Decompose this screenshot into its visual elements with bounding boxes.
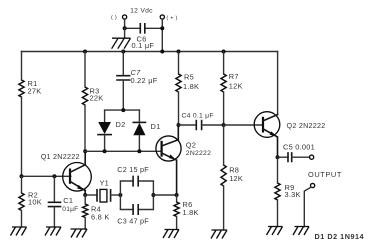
diode D1 xyxy=(133,110,145,151)
crystal Y1 xyxy=(97,189,111,202)
resistor R4 xyxy=(83,195,88,229)
svg-text:Q2: Q2 xyxy=(186,141,196,150)
wire rail to R7 xyxy=(223,52,225,75)
capacitor C2 top branch xyxy=(120,176,153,195)
terminal negative input xyxy=(123,15,127,19)
resistor R7 xyxy=(221,74,226,92)
svg-text:Q1 2N2222: Q1 2N2222 xyxy=(41,152,80,161)
svg-text:R5: R5 xyxy=(184,73,194,82)
capacitor C5 xyxy=(278,153,310,162)
node C6 right xyxy=(160,26,164,30)
svg-text:6.8 K: 6.8 K xyxy=(91,213,110,222)
node rail C7 xyxy=(121,50,125,54)
node rail R5 xyxy=(177,50,181,54)
wire rail to R5 xyxy=(178,52,180,75)
svg-text:10K: 10K xyxy=(28,198,42,207)
svg-text:C5 0.001: C5 0.001 xyxy=(283,143,315,152)
svg-text:C3 47 pF: C3 47 pF xyxy=(117,217,149,226)
ground under R6 xyxy=(163,230,179,239)
svg-text:1.8K: 1.8K xyxy=(183,208,199,217)
wire R3 to base line node xyxy=(84,105,86,151)
node R1 R2 Q1 base xyxy=(20,174,24,178)
ground near C6 xyxy=(112,38,131,49)
node C4 R7 R8 Q3 base xyxy=(222,123,226,127)
node C2 C3 left xyxy=(118,193,122,197)
terminal positive input xyxy=(160,15,164,19)
svg-text:Q2 2N2222: Q2 2N2222 xyxy=(287,121,326,130)
node Q1 collector base line xyxy=(83,149,87,153)
wire emitter node to Y1 xyxy=(85,194,97,196)
ground under R8 xyxy=(211,230,227,239)
svg-text:D2: D2 xyxy=(116,120,126,129)
node Q3 emitter C5 R9 xyxy=(276,155,280,159)
wire Q2 base line xyxy=(85,150,161,152)
svg-text:D1 D2 1N914: D1 D2 1N914 xyxy=(315,232,365,241)
svg-text:C1: C1 xyxy=(63,196,73,205)
wire C2 C3 to R6 node xyxy=(153,194,176,196)
capacitor C3 bottom branch xyxy=(120,195,153,214)
svg-text:12K: 12K xyxy=(229,174,243,183)
wire left terminal to C6 node xyxy=(124,19,126,28)
diode D2 xyxy=(98,110,111,151)
svg-text:Y1: Y1 xyxy=(100,178,110,187)
node C7 diode box xyxy=(121,108,125,112)
svg-text:D1: D1 xyxy=(151,122,161,131)
svg-text:22K: 22K xyxy=(90,94,104,103)
wire C6 left node to ground xyxy=(124,28,126,38)
svg-text:C2 15 pF: C2 15 pF xyxy=(117,165,149,174)
node rail supply xyxy=(160,50,164,54)
transistor Q1 xyxy=(63,151,92,195)
svg-text:12K: 12K xyxy=(229,82,243,91)
resistor R5 xyxy=(176,74,181,92)
svg-text:R7: R7 xyxy=(229,72,239,81)
resistor R8 xyxy=(221,125,226,230)
svg-text:R8: R8 xyxy=(229,166,239,175)
terminal OUTPUT xyxy=(311,183,315,187)
wire Q3 base xyxy=(224,124,263,126)
wire rail to R3 xyxy=(84,52,86,88)
wire rail drop to Q3 collector xyxy=(277,52,279,115)
svg-text:0.1 μF: 0.1 μF xyxy=(132,41,155,50)
node C2 C3 right xyxy=(151,193,155,197)
capacitor C7 xyxy=(117,52,130,111)
svg-text:27K: 27K xyxy=(28,86,42,95)
node rail R7 xyxy=(222,50,226,54)
wire Q1 base xyxy=(22,175,71,177)
svg-text:12 Vdc: 12 Vdc xyxy=(130,8,153,15)
resistor R3 xyxy=(82,87,87,105)
wire R7 to C4 node xyxy=(223,92,225,125)
node C6 left xyxy=(123,26,127,30)
ground under R9 xyxy=(267,227,283,236)
node C1 tap xyxy=(52,174,56,178)
transistor Q3 xyxy=(254,112,280,158)
svg-text:2N2222: 2N2222 xyxy=(186,150,211,157)
svg-text:C4 0.1 μF: C4 0.1 μF xyxy=(182,112,214,119)
ground under R2 xyxy=(11,227,27,236)
node Q2 emitter R6 xyxy=(175,193,179,197)
wire R1 to Q1 base node xyxy=(21,97,23,176)
node R5 C4 Q2 collector xyxy=(177,123,181,127)
ground under output xyxy=(293,227,309,236)
node D1 base line xyxy=(137,149,141,153)
svg-text:1.8K: 1.8K xyxy=(183,82,199,91)
svg-text:0.22 μF: 0.22 μF xyxy=(131,76,158,85)
svg-text:OUTPUT: OUTPUT xyxy=(308,170,342,179)
transistor Q2 xyxy=(156,125,181,195)
wire right terminal down to rail xyxy=(161,19,163,51)
svg-text:01μF: 01μF xyxy=(62,206,78,213)
resistor R6 xyxy=(174,195,179,230)
capacitor C6 xyxy=(125,24,163,33)
resistor R1 xyxy=(19,80,24,97)
wire diode box top xyxy=(105,109,140,111)
resistor R2 xyxy=(19,176,24,227)
svg-text:3.3K: 3.3K xyxy=(285,190,301,199)
terminal C5 output xyxy=(310,155,314,159)
capacitor C1 xyxy=(49,176,61,227)
wire output terminal to ground xyxy=(304,187,311,226)
svg-text:( ): ( ) xyxy=(111,15,117,21)
wire +12V rail xyxy=(22,51,278,53)
ground under C1 xyxy=(45,227,61,236)
resistor R9 xyxy=(275,157,280,226)
ground under R4 xyxy=(71,229,88,238)
svg-text:( + ): ( + ) xyxy=(166,15,177,21)
wire Y1 to C2 C3 network xyxy=(111,194,121,196)
wire rail to R1 xyxy=(21,52,23,81)
node Q1 emitter R4 crystal xyxy=(83,193,87,197)
node rail R3 xyxy=(83,50,87,54)
node D2 base line xyxy=(103,149,107,153)
wire R5 to C4 node xyxy=(178,92,180,125)
capacitor C4 xyxy=(179,121,224,130)
